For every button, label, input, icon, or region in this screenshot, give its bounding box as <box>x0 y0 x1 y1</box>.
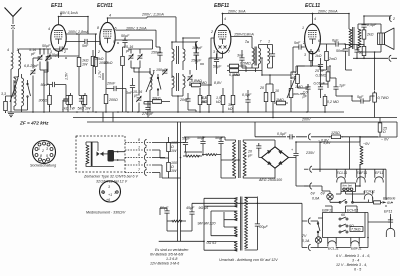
resistor R13b 6,5M <box>227 69 262 77</box>
bus line 3 <box>255 122 378 137</box>
osc coil L5 <box>146 68 155 104</box>
capacitor C12 3nF <box>126 78 135 112</box>
text 6V Betrieb <box>336 254 370 272</box>
svg-text:5: 5 <box>113 40 115 44</box>
svg-text:2: 2 <box>63 50 66 54</box>
capacitor C36 <box>186 206 195 217</box>
svg-text:150pF: 150pF <box>191 59 202 63</box>
svg-text:2mΩ: 2mΩ <box>328 57 337 61</box>
svg-text:0,6A: 0,6A <box>312 197 320 201</box>
svg-text:200V, 20mA: 200V, 20mA <box>317 10 338 14</box>
resistor R6 10k <box>91 50 104 112</box>
svg-text:150µF: 150µF <box>156 68 167 72</box>
svg-text:3: 3 <box>304 53 306 57</box>
svg-text:3,3: 3,3 <box>1 92 6 96</box>
svg-text:5kΩ 1W: 5kΩ 1W <box>78 107 92 111</box>
svg-text:2: 2 <box>302 41 305 45</box>
bottom left wires <box>160 203 257 231</box>
bus line 2 <box>73 117 397 119</box>
IF T2 core <box>255 47 256 66</box>
capacitor C6 coupling 5nF <box>66 39 100 48</box>
bottom transformer T5 winding c <box>211 227 237 237</box>
svg-text:8: 8 <box>138 138 140 142</box>
antenna coil L2 <box>17 48 21 77</box>
capacitor C4 50nF <box>41 82 58 87</box>
svg-text:10: 10 <box>275 89 279 93</box>
svg-text:MΩ: MΩ <box>201 100 207 104</box>
svg-text:50nF: 50nF <box>41 83 50 87</box>
wire choke down <box>355 164 360 186</box>
svg-text:5: 5 <box>46 154 48 158</box>
svg-text:5nF: 5nF <box>82 44 89 48</box>
osc switch S2 <box>157 74 161 96</box>
svg-text:25 nF: 25 nF <box>314 69 325 73</box>
connector arc mains 2 <box>304 183 322 189</box>
label 200V 2,2mA <box>115 13 176 43</box>
resistor R22 <box>292 66 312 88</box>
svg-text:0,5µF: 0,5µF <box>242 93 252 97</box>
svg-text:300Ω: 300Ω <box>39 99 48 103</box>
svg-text:ECL11: ECL11 <box>305 3 320 9</box>
bridge wires <box>256 140 296 178</box>
connector arc mains 1 <box>304 166 312 172</box>
svg-text:4: 4 <box>48 27 50 31</box>
resistor R23 0,2MΩ <box>316 66 330 88</box>
svg-text:1W: 1W <box>171 149 177 153</box>
svg-text:6V: 6V <box>321 192 326 196</box>
field coil choke <box>360 137 370 172</box>
padder C13 trimmer <box>133 68 142 112</box>
svg-text:5: 5 <box>138 161 140 165</box>
resistor R7 30kΩ <box>146 97 170 104</box>
svg-text:6: 6 <box>229 30 231 34</box>
heater ECH11 <box>364 190 375 200</box>
svg-text:2: 2 <box>210 30 213 34</box>
svg-text:6: 6 <box>138 153 140 157</box>
resistor R6b 80k <box>104 48 124 112</box>
switch vertical <box>317 223 320 233</box>
svg-text:200V, 3mA: 200V, 3mA <box>227 10 246 14</box>
capacitor C26 8,5nF <box>361 16 377 30</box>
svg-text:AEG 250D100: AEG 250D100 <box>258 178 282 182</box>
resistor R32 25 ohm <box>378 118 387 137</box>
connector arc top right <box>389 15 395 21</box>
svg-text:EBF11: EBF11 <box>351 247 362 251</box>
svg-text:3 - 4: 3 - 4 <box>352 259 359 263</box>
svg-text:1-3 6-8: 1-3 6-8 <box>166 257 177 261</box>
transformer input caps 50µF <box>197 136 206 156</box>
resistor R14 <box>259 84 268 112</box>
svg-text:45µF: 45µF <box>186 206 195 210</box>
connector bottom 1 <box>302 218 318 224</box>
wire anode ECL <box>223 13 350 15</box>
IF transformer T2 coil A <box>252 48 254 68</box>
resistor R5 ECH cathode <box>104 52 118 112</box>
svg-text:60: 60 <box>341 213 345 217</box>
capacitor C28 2µF <box>302 84 311 112</box>
svg-text:EBF11: EBF11 <box>322 209 333 213</box>
resistor R2b 300 ohm <box>39 93 52 107</box>
trimmer C9 <box>137 49 143 68</box>
transformer input caps 50µF b <box>215 136 224 156</box>
svg-text:4: 4 <box>109 14 111 18</box>
svg-text:0,5MΩ: 0,5MΩ <box>240 62 251 66</box>
svg-text:1: 1 <box>17 48 19 52</box>
capacitor C25 6µF <box>320 39 345 47</box>
svg-text:3nF: 3nF <box>126 91 133 95</box>
svg-text:8,5µF: 8,5µF <box>367 23 377 27</box>
capacitor C34 20µF <box>255 197 269 250</box>
IF T1 coil D lower <box>183 74 185 96</box>
wire feed bottom <box>257 203 390 247</box>
text block verbinden <box>150 248 188 266</box>
svg-text:20µF: 20µF <box>258 225 268 229</box>
speaker wires <box>358 16 390 58</box>
svg-text:2: 2 <box>97 50 100 54</box>
svg-text:0,2MΩ: 0,2MΩ <box>316 74 327 78</box>
antenna coil L1 <box>7 48 13 112</box>
svg-text:6 V - Betrieb 3 - 4 - 6,: 6 V - Betrieb 3 - 4 - 6, <box>336 254 370 258</box>
variable cap C3 <box>24 63 39 112</box>
svg-text:6: 6 <box>115 26 117 30</box>
extra wire EBF area <box>217 51 305 80</box>
svg-text:4: 4 <box>7 48 9 52</box>
IF T1 core <box>177 46 179 64</box>
wire left bottom <box>6 80 28 112</box>
socket diagram Sockelschaltung <box>33 141 56 164</box>
components above text block <box>160 206 170 216</box>
capacitor C35 0,5uF <box>277 132 295 140</box>
trimmer C1 <box>29 48 43 70</box>
svg-text:100V, 3,2mA: 100V, 3,2mA <box>126 26 147 30</box>
svg-text:200Ω: 200Ω <box>108 98 118 102</box>
svg-text:1W: 1W <box>82 63 88 67</box>
svg-text:1MΩ: 1MΩ <box>276 98 284 102</box>
resistor R10 <box>201 58 217 112</box>
svg-text:1W: 1W <box>171 169 177 173</box>
resistor R13 0,5M <box>227 62 251 73</box>
extra vertical wires <box>33 49 186 156</box>
output transformer T3 core <box>353 27 355 49</box>
svg-text:1: 1 <box>302 26 304 30</box>
svg-text:kΩ: kΩ <box>292 76 297 80</box>
connector arc row 1 <box>125 138 152 146</box>
bottom box wires <box>318 213 368 248</box>
svg-text:7: 7 <box>260 40 263 44</box>
resistor R8 0,8MΩ <box>189 79 207 87</box>
heater EBF11 bottom <box>351 241 362 251</box>
svg-text:Zerhacker Type 32 /1/NT6 bei 6: Zerhacker Type 32 /1/NT6 bei 6 V <box>83 175 138 179</box>
svg-text:7V: 7V <box>302 234 307 238</box>
wire EBF grid <box>200 38 214 85</box>
tube EF11 <box>48 13 66 55</box>
wire y58.3 <box>345 45 397 59</box>
svg-text:µF: µF <box>248 154 253 158</box>
IF transformer T2 coil B <box>259 45 261 69</box>
capacitor C17 180pF <box>192 42 203 64</box>
svg-text:30kΩ: 30kΩ <box>152 97 161 101</box>
IF T2 coil C <box>268 45 270 69</box>
svg-text:EBF11: EBF11 <box>357 171 368 175</box>
connector arc row <box>308 134 310 140</box>
connector arc EBF left <box>195 41 197 47</box>
svg-text:ECL11: ECL11 <box>337 171 348 175</box>
svg-text:3nF: 3nF <box>237 54 244 58</box>
wire EF11 cathode <box>47 51 79 112</box>
capacitor C27 <box>336 44 352 70</box>
IF T1 core lower <box>177 73 179 91</box>
svg-text:µF: µF <box>134 94 139 98</box>
connector arc row 3 <box>125 153 152 161</box>
svg-text:4: 4 <box>314 17 316 21</box>
resistor R9 0,5MΩ <box>198 88 208 112</box>
output transformer T3 primary <box>349 14 352 57</box>
svg-text:200V: 200V <box>301 117 311 121</box>
pair capacitor C5b + resistor R5b <box>78 93 92 112</box>
svg-text:ECH11: ECH11 <box>97 3 113 9</box>
wire AVC <box>188 110 196 112</box>
tube EBF11 <box>210 13 231 54</box>
svg-text:0Ω 63: 0Ω 63 <box>207 241 217 245</box>
resistor R17 1MΩ <box>274 98 288 105</box>
capacitor C22 50µF <box>213 54 222 75</box>
svg-text:235V: 235V <box>305 151 315 155</box>
svg-text:EF11: EF11 <box>51 3 63 9</box>
resistor R3 1k 1W <box>77 34 89 96</box>
svg-text:Es sind zu verbinden: Es sind zu verbinden <box>155 248 188 252</box>
svg-text:3: 3 <box>108 185 110 189</box>
wire IF2 <box>242 45 273 73</box>
Zerhacker contact dots <box>117 151 125 161</box>
resistor R25 125Ω <box>329 131 343 139</box>
svg-text:0,7WΩ: 0,7WΩ <box>378 96 389 100</box>
svg-text:6V: 6V <box>311 192 316 196</box>
resistor R30 <box>202 154 221 156</box>
svg-text:1MΩ: 1MΩ <box>199 81 207 85</box>
IF transformer T1 coil A <box>172 42 174 78</box>
fuse battery <box>368 201 382 204</box>
svg-text:pF: pF <box>30 52 36 56</box>
tube ECL11 <box>302 13 320 57</box>
svg-text:0,1A: 0,1A <box>302 239 310 243</box>
resistor R4 100 ohm <box>94 34 108 74</box>
svg-text:12 V - Betrieb 3 - 4,: 12 V - Betrieb 3 - 4, <box>336 263 367 267</box>
svg-text:9M 9M 220: 9M 9M 220 <box>198 222 216 226</box>
wire trimmer bottoms <box>40 70 48 112</box>
resistor R21 <box>359 44 366 58</box>
svg-text:50µF: 50µF <box>42 44 51 48</box>
svg-text:8: 8 <box>40 154 42 158</box>
trimmer C2 <box>45 49 60 70</box>
trimmer C16 <box>187 70 193 86</box>
trimmer C8 <box>124 45 134 68</box>
svg-text:150V/3,8mA: 150V/3,8mA <box>234 33 254 37</box>
svg-text:5nF: 5nF <box>294 41 301 45</box>
svg-text:10kΩ: 10kΩ <box>95 57 104 61</box>
wire grid line EF11 <box>19 48 52 50</box>
svg-text:2: 2 <box>244 40 247 44</box>
ground bus ZF <box>8 111 345 113</box>
svg-text:8,8V: 8,8V <box>214 81 222 85</box>
wire osc grid <box>100 42 150 75</box>
resistor R12 30kΩ <box>228 80 235 112</box>
wires above switch box <box>325 206 357 213</box>
IF T1 coil C lower <box>172 76 174 96</box>
lamp bottom <box>302 234 322 243</box>
resistor R27 100Ω <box>167 137 177 158</box>
svg-text:+6: +6 <box>106 198 110 202</box>
svg-text:3: 3 <box>50 50 52 54</box>
svg-text:50nF: 50nF <box>336 49 345 53</box>
svg-text:20nF: 20nF <box>179 98 189 102</box>
bottom transformer T5 winding b <box>211 211 237 221</box>
label 100V line <box>66 30 96 34</box>
wire B+ rails <box>178 122 181 241</box>
resistor R11 1,5kΩ <box>216 88 225 112</box>
antenna <box>5 8 22 54</box>
svg-text:50: 50 <box>359 51 363 55</box>
capacitor C18 20nF <box>179 93 191 110</box>
label 100V 3,2mA <box>116 26 161 50</box>
rectifier bridge AEG <box>262 147 289 168</box>
capacitor C19 <box>191 45 202 71</box>
output transformer T3 secondary <box>358 24 361 52</box>
svg-text:12V-Betrieb 3-M-6: 12V-Betrieb 3-M-6 <box>150 262 179 266</box>
svg-text:5: 5 <box>318 49 320 53</box>
T5 left wiring <box>159 198 238 250</box>
Zerhacker reed block <box>108 150 118 162</box>
lamp dial 6V <box>311 192 334 201</box>
svg-text:6: 6 <box>318 39 320 43</box>
capacitor C14 276pF <box>141 102 154 118</box>
svg-text:6,8-20pF: 6,8-20pF <box>24 64 39 68</box>
connector arc bottom right <box>389 55 391 61</box>
svg-text:EBF11: EBF11 <box>214 3 229 9</box>
svg-text:8: 8 <box>97 26 99 30</box>
capacitor C29 <box>314 82 326 99</box>
svg-text:7: 7 <box>228 50 231 54</box>
svg-text:6V: 6V <box>387 201 392 205</box>
capacitor C27b <box>354 45 359 59</box>
svg-text:Meßinstrument · 330Ω/V: Meßinstrument · 330Ω/V <box>86 211 126 215</box>
svg-text:50µF: 50µF <box>215 136 224 140</box>
tube ECH11 <box>97 14 117 55</box>
svg-text:200V ; 2,2mA: 200V ; 2,2mA <box>141 13 164 17</box>
heater bus <box>312 168 386 170</box>
ground chassis <box>8 114 14 117</box>
connector bottom 2 <box>302 244 318 250</box>
middle wires left <box>152 143 202 179</box>
svg-text:150pF: 150pF <box>151 51 162 55</box>
svg-text:− 5,8V: − 5,8V <box>320 141 331 145</box>
wire ECL bottom area <box>293 66 375 101</box>
svg-text:2: 2 <box>392 17 395 21</box>
resistor R15 <box>271 84 279 118</box>
svg-text:5µF: 5µF <box>357 95 364 99</box>
svg-text:− 0V: − 0V <box>381 138 389 142</box>
wire right edge <box>374 58 376 90</box>
svg-text:7: 7 <box>138 168 141 172</box>
svg-text:EF11: EF11 <box>375 171 383 175</box>
heater EBF11 <box>357 169 365 182</box>
wire IF1 top <box>172 38 200 112</box>
heater ECL11 <box>337 169 345 182</box>
resistor R24 0,2MΩ <box>323 94 339 112</box>
resistor box 7,5kΩ <box>350 227 363 232</box>
power transformer T4 left winding <box>225 140 236 178</box>
svg-text:125Ω: 125Ω <box>331 131 340 135</box>
capacitor C30 1µF <box>333 78 346 96</box>
wire ECL cathode <box>311 52 327 70</box>
svg-text:4: 4 <box>224 17 226 21</box>
Umschalt switch box <box>323 213 366 238</box>
capacitor C10 150pF <box>151 47 163 62</box>
svg-text:2: 2 <box>41 149 44 153</box>
svg-text:85V 5,1mA: 85V 5,1mA <box>60 11 78 15</box>
coil L6 tap wire <box>144 102 150 113</box>
power transformer T4 core <box>239 140 240 178</box>
svg-text:0,01µF: 0,01µF <box>314 82 326 86</box>
switch wafer contacts <box>339 213 354 233</box>
resistor R26 0,7W <box>373 91 389 118</box>
heater net wires <box>322 169 386 207</box>
svg-text:1µF: 1µF <box>339 84 346 88</box>
resistor R1 <box>1 92 7 113</box>
svg-text:20nF: 20nF <box>106 82 116 86</box>
RF coil L4 <box>22 74 24 110</box>
svg-text:ECL11: ECL11 <box>328 247 339 251</box>
band switch S1 <box>27 80 31 104</box>
capacitor C4b 50uF <box>42 44 68 52</box>
Zerhacker coil <box>86 142 114 167</box>
middle wires trafo <box>203 137 240 178</box>
svg-text:µF: µF <box>303 95 308 99</box>
bottom transformer T5 winding a <box>204 198 237 208</box>
svg-text:100V, 2,8mA: 100V, 2,8mA <box>68 30 89 34</box>
svg-text:276 pF: 276 pF <box>141 112 154 116</box>
capacitor C24 5nF <box>293 41 305 72</box>
capacitor C21 <box>270 45 275 69</box>
svg-text:1,5V: 1,5V <box>65 72 69 80</box>
svg-text:3: 3 <box>46 147 48 151</box>
connector arc row 4 <box>125 161 152 169</box>
svg-text:80kΩ: 80kΩ <box>104 61 113 65</box>
svg-text:50µF: 50µF <box>121 34 130 38</box>
svg-text:1: 1 <box>138 146 140 150</box>
bus line 3 <box>87 121 397 123</box>
resistor R18 1kΩ <box>309 49 322 66</box>
Zerhacker dashed box <box>76 136 125 172</box>
resistor R28 100Ω <box>167 158 177 178</box>
label Batterie <box>383 197 396 205</box>
svg-text:Ω: Ω <box>383 130 386 134</box>
svg-text:1kΩ 1W: 1kΩ 1W <box>62 107 76 111</box>
svg-text:1,7V: 1,7V <box>98 70 102 78</box>
capacitor C29b 25nF <box>314 58 325 84</box>
label 150V <box>231 33 255 48</box>
svg-text:0,5µF: 0,5µF <box>277 132 287 136</box>
resistor R19 <box>325 44 337 70</box>
svg-text:6 - 5: 6 - 5 <box>354 268 361 272</box>
svg-text:3: 3 <box>213 50 215 54</box>
capacitor C32 10µF <box>182 137 191 153</box>
resistor R31 zigzag <box>167 220 186 222</box>
Zerhacker contact diamond <box>97 152 108 157</box>
svg-text:ZF = 472 kHz: ZF = 472 kHz <box>19 121 49 126</box>
capacitor C33 elektrolyt <box>291 142 299 186</box>
bottom transformer T5 winding d <box>204 242 237 252</box>
capacitor C23 <box>242 90 252 112</box>
